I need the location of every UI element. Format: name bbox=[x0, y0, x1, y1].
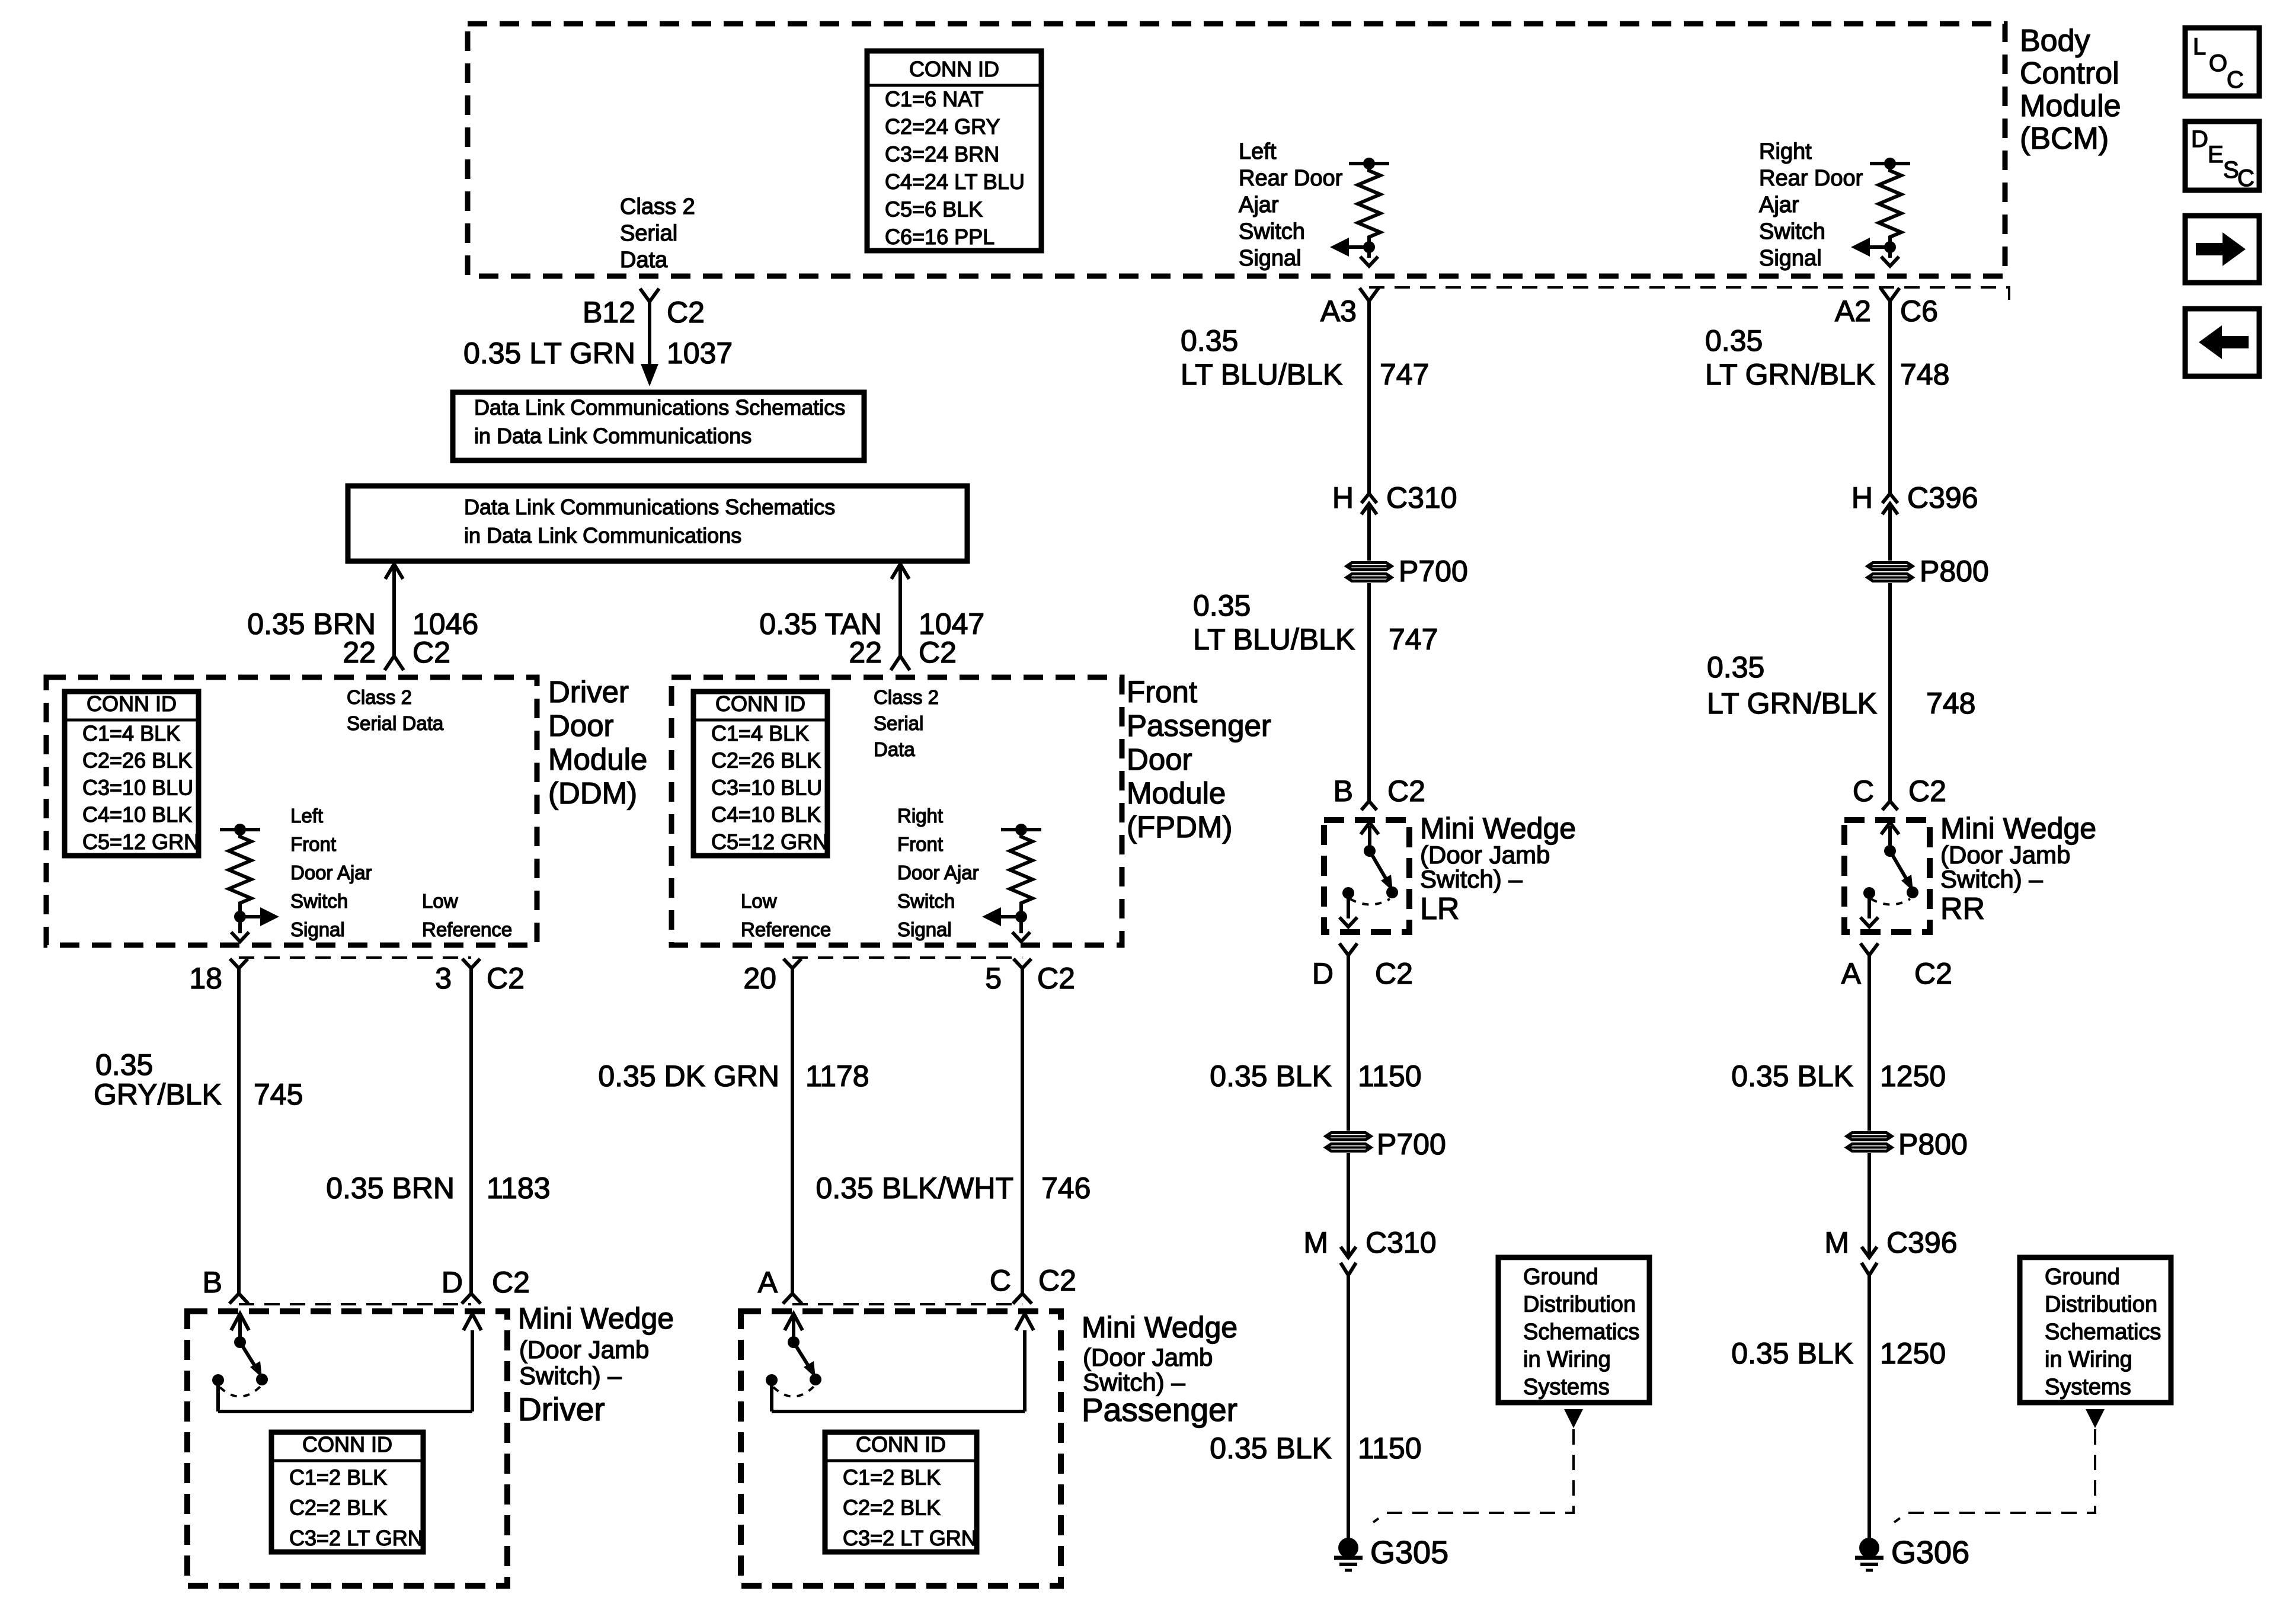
svg-text:C5=12 GRN: C5=12 GRN bbox=[711, 830, 828, 854]
wire: 0.35 BLK 1250 from C396 to ground G306 bbox=[1868, 1275, 1871, 1539]
svg-text:GRY/BLK: GRY/BLK bbox=[94, 1078, 222, 1111]
svg-text:C5=6 BLK: C5=6 BLK bbox=[885, 197, 983, 222]
svg-text:Module: Module bbox=[548, 742, 647, 776]
svg-text:O: O bbox=[2209, 50, 2227, 76]
svg-text:Left: Left bbox=[290, 805, 323, 827]
pass-through grommet P700 (lower) bbox=[1326, 1133, 1371, 1140]
svg-text:C2: C2 bbox=[1037, 962, 1075, 995]
dashed reference path to G306 bbox=[1894, 1429, 2095, 1522]
wire: 0.35 BRN 1046 from DDM 22 C2 up to Data Link box bbox=[385, 564, 403, 579]
svg-text:M: M bbox=[1824, 1226, 1849, 1259]
svg-text:in Data Link Communications: in Data Link Communications bbox=[464, 523, 741, 548]
svg-text:Passenger: Passenger bbox=[1127, 709, 1271, 742]
svg-text:C2: C2 bbox=[492, 1266, 530, 1299]
connector pin 5 C2 on FPDM (female Y) bbox=[1013, 959, 1031, 968]
svg-text:(FPDM): (FPDM) bbox=[1127, 810, 1232, 844]
svg-text:Door Ajar: Door Ajar bbox=[290, 862, 372, 884]
svg-text:C3=24 BRN: C3=24 BRN bbox=[885, 142, 999, 167]
svg-text:0.35: 0.35 bbox=[95, 1048, 153, 1081]
svg-text:0.35 BRN: 0.35 BRN bbox=[326, 1172, 455, 1205]
svg-text:D: D bbox=[442, 1266, 463, 1299]
svg-text:CONN ID: CONN ID bbox=[87, 692, 177, 716]
svg-text:(BCM): (BCM) bbox=[2020, 121, 2109, 156]
svg-text:C6=16 PPL: C6=16 PPL bbox=[885, 225, 994, 249]
svg-text:745: 745 bbox=[254, 1078, 303, 1111]
connector pin B12 C2 on BCM (female Y) bbox=[640, 289, 659, 302]
svg-text:C2: C2 bbox=[667, 296, 705, 329]
svg-text:Switch: Switch bbox=[290, 890, 348, 912]
connector pin A3 on BCM (female Y) bbox=[1360, 288, 1379, 301]
svg-text:1178: 1178 bbox=[805, 1060, 869, 1093]
svg-text:P800: P800 bbox=[1898, 1128, 1968, 1161]
wire: 0.35 LT BLU/BLK 747 from BCM A3 to C310 bbox=[1367, 301, 1371, 493]
connector pin 18 on DDM (female Y) bbox=[230, 959, 248, 968]
wire: 0.35 BLK 1150 from LR wedge D to P700 bbox=[1347, 955, 1350, 1131]
svg-text:3: 3 bbox=[435, 962, 452, 995]
table: passenger wedge CONN ID bbox=[825, 1432, 977, 1552]
ground symbol G306 bbox=[1859, 1538, 1879, 1558]
switch: RR door jamb switch bbox=[1881, 822, 1899, 834]
svg-text:Front: Front bbox=[290, 833, 336, 855]
svg-text:C4=24 LT BLU: C4=24 LT BLU bbox=[885, 169, 1025, 194]
svg-text:in Data Link Communications: in Data Link Communications bbox=[474, 424, 752, 448]
svg-text:Left: Left bbox=[1239, 139, 1277, 164]
svg-text:747: 747 bbox=[1380, 358, 1429, 391]
svg-text:Signal: Signal bbox=[897, 918, 952, 940]
svg-text:0.35: 0.35 bbox=[1705, 324, 1763, 357]
switch: passenger door jamb switch bbox=[785, 1314, 802, 1330]
svg-text:C2=26 BLK: C2=26 BLK bbox=[82, 748, 192, 773]
svg-text:C2: C2 bbox=[1908, 774, 1946, 808]
arrow from ground dist box (left) bbox=[1564, 1409, 1583, 1428]
connector interface line above driver wedge (thin dashed) bbox=[239, 1303, 471, 1305]
svg-text:C2=24 GRY: C2=24 GRY bbox=[885, 114, 1000, 139]
svg-text:CONN ID: CONN ID bbox=[909, 57, 999, 81]
svg-text:C3=2 LT GRN: C3=2 LT GRN bbox=[289, 1526, 423, 1550]
svg-text:747: 747 bbox=[1389, 623, 1438, 656]
svg-text:Distribution: Distribution bbox=[1523, 1292, 1636, 1317]
svg-text:1150: 1150 bbox=[1358, 1432, 1422, 1465]
svg-text:C1=2 BLK: C1=2 BLK bbox=[289, 1465, 387, 1489]
svg-text:G305: G305 bbox=[1370, 1535, 1448, 1570]
pass-through grommet P800 (lower) bbox=[1847, 1133, 1892, 1140]
wire: 0.35 BLK 1250 from RR wedge A to P800 bbox=[1868, 955, 1871, 1131]
svg-text:C: C bbox=[990, 1264, 1011, 1297]
wire: 0.35 TAN 1047 from FPDM 22 C2 up to Data Link box bbox=[891, 564, 909, 579]
svg-text:B12: B12 bbox=[583, 296, 635, 329]
svg-text:Front: Front bbox=[1127, 675, 1197, 709]
svg-text:Mini Wedge: Mini Wedge bbox=[1420, 812, 1576, 845]
svg-text:0.35 BLK: 0.35 BLK bbox=[1731, 1060, 1853, 1093]
wire: 0.35 LT GRN 1037 from BCM B12 to Data Link box bbox=[648, 302, 651, 365]
svg-text:C6: C6 bbox=[1900, 295, 1938, 328]
svg-text:Ajar: Ajar bbox=[1759, 193, 1799, 217]
svg-text:Low: Low bbox=[741, 890, 777, 912]
wire: C396 to P800 bbox=[1888, 504, 1892, 561]
svg-text:Reference: Reference bbox=[741, 918, 831, 940]
svg-text:C5=12 GRN: C5=12 GRN bbox=[82, 830, 199, 854]
module box: Driver Door Module (DDM), dashed bbox=[46, 677, 537, 945]
svg-text:Driver: Driver bbox=[518, 1391, 605, 1427]
svg-text:0.35 DK GRN: 0.35 DK GRN bbox=[598, 1060, 779, 1093]
svg-text:D: D bbox=[1312, 957, 1334, 990]
svg-text:L: L bbox=[2193, 34, 2206, 60]
svg-text:1250: 1250 bbox=[1880, 1060, 1946, 1093]
connector pin 22 C2 on FPDM (inverted Y) bbox=[891, 656, 910, 670]
svg-text:Right: Right bbox=[897, 805, 943, 827]
svg-text:Body: Body bbox=[2020, 24, 2090, 58]
svg-text:Module: Module bbox=[1127, 776, 1226, 810]
svg-text:1183: 1183 bbox=[487, 1172, 551, 1205]
ground symbol G305 bbox=[1338, 1538, 1358, 1558]
svg-text:0.35: 0.35 bbox=[1707, 651, 1764, 684]
svg-text:C2=2 BLK: C2=2 BLK bbox=[843, 1496, 941, 1520]
svg-text:Passenger: Passenger bbox=[1082, 1391, 1237, 1428]
svg-text:A2: A2 bbox=[1835, 295, 1871, 328]
svg-text:C1=6 NAT: C1=6 NAT bbox=[885, 87, 983, 111]
svg-text:Ajar: Ajar bbox=[1239, 193, 1279, 217]
svg-text:Switch) –: Switch) – bbox=[1420, 865, 1523, 893]
svg-text:C3=10 BLU: C3=10 BLU bbox=[711, 775, 822, 799]
table: FPDM CONN ID bbox=[693, 692, 827, 856]
svg-text:C2=26 BLK: C2=26 BLK bbox=[711, 748, 821, 773]
svg-text:C: C bbox=[1853, 774, 1874, 808]
svg-text:B: B bbox=[203, 1266, 222, 1299]
svg-text:C: C bbox=[2227, 67, 2244, 93]
switch box: Mini Wedge (Door Jamb Switch) Driver, dashed bbox=[187, 1311, 507, 1586]
connector pin A2 C6 on BCM (female Y) bbox=[1881, 288, 1900, 301]
wire: 0.35 LT GRN/BLK 748 from P800 to RR wedge C C2 bbox=[1888, 583, 1892, 801]
svg-text:C396: C396 bbox=[1886, 1226, 1958, 1259]
svg-text:Door: Door bbox=[1127, 742, 1192, 776]
svg-text:Systems: Systems bbox=[1523, 1375, 1610, 1400]
svg-text:0.35 BLK/WHT: 0.35 BLK/WHT bbox=[816, 1172, 1013, 1205]
svg-text:C4=10 BLK: C4=10 BLK bbox=[82, 802, 192, 827]
svg-text:Signal: Signal bbox=[1239, 246, 1302, 271]
connector pin C C2 at RR wedge (female Y) bbox=[1882, 801, 1898, 810]
wire: 0.35 GRY/BLK 745 from DDM 18 to driver wedge B bbox=[237, 968, 241, 1294]
legend box left-arrow bbox=[2185, 309, 2259, 376]
svg-text:H: H bbox=[1851, 481, 1873, 514]
connector C396 pin H (inline) bbox=[1882, 494, 1898, 503]
svg-text:A: A bbox=[758, 1266, 778, 1299]
svg-text:Data: Data bbox=[874, 738, 915, 760]
svg-text:5: 5 bbox=[985, 962, 1002, 995]
svg-text:C3=10 BLU: C3=10 BLU bbox=[82, 775, 193, 799]
svg-text:LT BLU/BLK: LT BLU/BLK bbox=[1193, 623, 1355, 656]
svg-text:Schematics: Schematics bbox=[1523, 1320, 1639, 1345]
svg-text:Serial Data: Serial Data bbox=[347, 712, 444, 734]
switch: LR door jamb switch bbox=[1361, 822, 1379, 834]
svg-text:Data Link Communications Schem: Data Link Communications Schematics bbox=[474, 395, 845, 420]
wire: 0.35 LT GRN/BLK 748 from BCM A2 to C396 bbox=[1888, 301, 1892, 493]
wire: 0.35 BLK 1150 from C310 to ground G305 bbox=[1347, 1275, 1350, 1539]
svg-text:Class 2: Class 2 bbox=[874, 686, 939, 708]
svg-text:0.35 LT GRN: 0.35 LT GRN bbox=[463, 337, 635, 370]
svg-text:P700: P700 bbox=[1399, 555, 1468, 588]
svg-text:Driver: Driver bbox=[548, 675, 629, 709]
svg-text:(DDM): (DDM) bbox=[548, 776, 637, 810]
reference box: Ground Distribution Schematics in Wiring Systems (left) bbox=[1498, 1257, 1649, 1403]
svg-text:A: A bbox=[1841, 957, 1862, 990]
switch box: Mini Wedge (Door Jamb Switch) RR, dashed bbox=[1844, 820, 1930, 932]
svg-text:D: D bbox=[2191, 126, 2208, 152]
wire: 0.35 BRN 1183 from DDM 3 to driver wedge D bbox=[469, 968, 473, 1294]
svg-text:Serial: Serial bbox=[874, 712, 923, 734]
svg-text:Class 2: Class 2 bbox=[620, 194, 695, 219]
svg-text:Right: Right bbox=[1759, 139, 1812, 164]
svg-text:LT BLU/BLK: LT BLU/BLK bbox=[1181, 358, 1342, 391]
connector pins B / D C2 at driver wedge (inverted Y) bbox=[229, 1294, 248, 1304]
svg-text:C1=2 BLK: C1=2 BLK bbox=[843, 1465, 941, 1489]
pass-through grommet P800 (upper) bbox=[1868, 563, 1913, 570]
svg-text:P700: P700 bbox=[1377, 1128, 1446, 1161]
svg-text:H: H bbox=[1332, 481, 1354, 514]
svg-text:C2: C2 bbox=[412, 636, 450, 669]
svg-text:Control: Control bbox=[2020, 56, 2119, 91]
svg-text:M: M bbox=[1303, 1226, 1328, 1259]
svg-text:0.35 BLK: 0.35 BLK bbox=[1731, 1337, 1853, 1370]
svg-text:B: B bbox=[1334, 774, 1353, 808]
svg-text:C2: C2 bbox=[1375, 957, 1413, 990]
legend box LOC bbox=[2185, 28, 2259, 96]
connector pin A C2 below RR wedge (female Y) bbox=[1860, 943, 1878, 955]
resistor: Left Rear Door Ajar Switch pull-up in BCM bbox=[1349, 162, 1389, 165]
svg-text:C2: C2 bbox=[487, 962, 525, 995]
module box: Front Passenger Door Module (FPDM), dashed bbox=[671, 677, 1122, 945]
svg-text:C2: C2 bbox=[919, 636, 957, 669]
svg-text:1250: 1250 bbox=[1880, 1337, 1946, 1370]
svg-text:Front: Front bbox=[897, 833, 943, 855]
table: driver wedge CONN ID bbox=[271, 1432, 423, 1552]
svg-text:A3: A3 bbox=[1320, 295, 1357, 328]
svg-text:Rear Door: Rear Door bbox=[1759, 166, 1863, 191]
svg-text:CONN ID: CONN ID bbox=[715, 692, 805, 716]
wire: P700 to C310 M bbox=[1347, 1153, 1350, 1257]
svg-text:22: 22 bbox=[849, 636, 882, 669]
svg-text:0.35 BLK: 0.35 BLK bbox=[1210, 1432, 1332, 1465]
switch: driver door jamb switch bbox=[231, 1314, 249, 1330]
resistor: Right Rear Door Ajar Switch pull-up in BCM bbox=[1870, 162, 1910, 165]
svg-text:C2=2 BLK: C2=2 BLK bbox=[289, 1496, 387, 1520]
svg-text:0.35: 0.35 bbox=[1193, 589, 1251, 622]
svg-text:LT GRN/BLK: LT GRN/BLK bbox=[1707, 687, 1877, 720]
svg-text:S: S bbox=[2223, 157, 2239, 183]
svg-text:LR: LR bbox=[1420, 892, 1459, 926]
resistor: Right Front Door Ajar Switch pull-up in FPDM bbox=[1001, 828, 1041, 831]
svg-text:C4=10 BLK: C4=10 BLK bbox=[711, 802, 821, 827]
connector C396 pin M (inline) bbox=[1862, 1247, 1877, 1257]
resistor: Left Front Door Ajar Switch pull-up in DDM bbox=[220, 828, 260, 831]
svg-text:22: 22 bbox=[343, 636, 376, 669]
pass-through grommet P700 (upper) bbox=[1347, 563, 1392, 570]
wire: 0.35 DK GRN 1178 from FPDM 20 to passenger wedge A bbox=[791, 968, 794, 1294]
svg-text:C1=4 BLK: C1=4 BLK bbox=[711, 721, 809, 745]
svg-text:C3=2 LT GRN: C3=2 LT GRN bbox=[843, 1526, 977, 1550]
svg-text:Signal: Signal bbox=[1759, 246, 1822, 271]
arrow from ground dist box (right) bbox=[2086, 1409, 2105, 1428]
switch box: Mini Wedge (Door Jamb Switch) Passenger, dashed bbox=[741, 1311, 1061, 1586]
svg-text:Door: Door bbox=[548, 709, 614, 742]
svg-text:Signal: Signal bbox=[290, 918, 345, 940]
svg-text:C2: C2 bbox=[1038, 1264, 1076, 1297]
svg-text:Mini Wedge: Mini Wedge bbox=[1082, 1311, 1237, 1344]
connector C310 pin H (inline) bbox=[1361, 494, 1377, 503]
svg-text:C2: C2 bbox=[1914, 957, 1952, 990]
wire: 0.35 LT BLU/BLK 747 from P700 to LR wedge B C2 bbox=[1367, 583, 1371, 801]
svg-text:20: 20 bbox=[743, 962, 776, 995]
svg-text:LT GRN/BLK: LT GRN/BLK bbox=[1705, 358, 1875, 391]
svg-text:Module: Module bbox=[2020, 89, 2121, 123]
svg-text:CONN ID: CONN ID bbox=[302, 1432, 392, 1457]
svg-text:Data Link Communications Schem: Data Link Communications Schematics bbox=[464, 495, 835, 519]
switch box: Mini Wedge (Door Jamb Switch) LR, dashed bbox=[1324, 820, 1409, 932]
svg-text:C310: C310 bbox=[1386, 481, 1457, 514]
svg-text:Door Ajar: Door Ajar bbox=[897, 862, 979, 884]
svg-text:(Door Jamb: (Door Jamb bbox=[1940, 841, 2070, 869]
svg-text:C: C bbox=[2237, 165, 2255, 191]
svg-text:C2: C2 bbox=[1387, 774, 1425, 808]
svg-text:(Door Jamb: (Door Jamb bbox=[1083, 1343, 1213, 1371]
svg-text:748: 748 bbox=[1926, 687, 1975, 720]
wire: C310 to P700 bbox=[1367, 504, 1371, 561]
connector pin 22 C2 on DDM (inverted Y) bbox=[385, 656, 404, 670]
svg-text:Data: Data bbox=[620, 248, 668, 273]
svg-text:C310: C310 bbox=[1366, 1226, 1437, 1259]
svg-text:Low: Low bbox=[422, 890, 458, 912]
connector C310 pin M (inline) bbox=[1341, 1247, 1356, 1257]
connector interface line under FPDM (thin dashed) bbox=[792, 956, 1022, 959]
connector interface line under BCM (thin dashed) bbox=[1369, 287, 2009, 303]
svg-text:Switch: Switch bbox=[897, 890, 955, 912]
svg-text:CONN ID: CONN ID bbox=[856, 1432, 946, 1457]
svg-text:Class 2: Class 2 bbox=[347, 686, 412, 708]
svg-text:G306: G306 bbox=[1891, 1535, 1969, 1570]
svg-text:Switch) –: Switch) – bbox=[1940, 865, 2043, 893]
svg-text:Serial: Serial bbox=[620, 221, 677, 246]
legend box right-arrow bbox=[2185, 216, 2259, 283]
connector interface line under DDM (thin dashed) bbox=[239, 956, 471, 959]
svg-text:E: E bbox=[2208, 142, 2224, 168]
module box: Body Control Module (BCM), dashed bbox=[468, 24, 2005, 276]
svg-text:RR: RR bbox=[1940, 892, 1985, 926]
svg-text:Systems: Systems bbox=[2045, 1375, 2131, 1400]
wire: P800 to C396 M bbox=[1868, 1153, 1871, 1257]
svg-text:Mini Wedge: Mini Wedge bbox=[518, 1302, 674, 1335]
svg-text:in Wiring: in Wiring bbox=[2045, 1347, 2132, 1372]
svg-text:(Door Jamb: (Door Jamb bbox=[1420, 841, 1550, 869]
svg-text:18: 18 bbox=[189, 962, 222, 995]
connector pins A / C C2 at passenger wedge (inverted Y) bbox=[783, 1294, 802, 1304]
wire: 0.35 BLK/WHT 746 from FPDM 5 to passenger wedge C bbox=[1021, 968, 1024, 1294]
svg-text:in Wiring: in Wiring bbox=[1523, 1347, 1611, 1372]
svg-text:746: 746 bbox=[1041, 1172, 1091, 1205]
svg-text:Switch: Switch bbox=[1239, 219, 1305, 244]
svg-text:0.35 BLK: 0.35 BLK bbox=[1210, 1060, 1332, 1093]
svg-text:Mini Wedge: Mini Wedge bbox=[1940, 812, 2096, 845]
svg-text:Schematics: Schematics bbox=[2045, 1320, 2161, 1345]
svg-text:C1=4 BLK: C1=4 BLK bbox=[82, 721, 180, 745]
svg-text:Switch) –: Switch) – bbox=[519, 1362, 622, 1390]
svg-text:1150: 1150 bbox=[1358, 1060, 1422, 1093]
connector pin B C2 at LR wedge (female Y) bbox=[1361, 801, 1377, 810]
reference box: Ground Distribution Schematics in Wiring Systems (right) bbox=[2020, 1257, 2171, 1403]
table: BCM CONN ID bbox=[867, 51, 1041, 251]
svg-text:Reference: Reference bbox=[422, 918, 512, 940]
table: DDM CONN ID bbox=[65, 692, 199, 856]
svg-text:1037: 1037 bbox=[667, 337, 733, 370]
svg-text:(Door Jamb: (Door Jamb bbox=[519, 1336, 649, 1363]
reference box: Data Link Communications Schematics (upper) bbox=[453, 392, 864, 460]
svg-text:P800: P800 bbox=[1920, 555, 1989, 588]
svg-text:Ground: Ground bbox=[1523, 1265, 1598, 1289]
svg-text:C396: C396 bbox=[1907, 481, 1978, 514]
svg-text:Switch: Switch bbox=[1759, 219, 1825, 244]
connector pin 3 C2 on DDM (female Y) bbox=[462, 959, 480, 968]
svg-text:Ground: Ground bbox=[2045, 1265, 2120, 1289]
connector pin D C2 below LR wedge (female Y) bbox=[1339, 943, 1357, 955]
dashed reference path to G305 bbox=[1373, 1429, 1574, 1522]
reference box: Data Link Communications Schematics (lower) bbox=[348, 486, 967, 561]
svg-text:0.35: 0.35 bbox=[1181, 324, 1238, 357]
connector interface line above passenger wedge (thin dashed) bbox=[792, 1303, 1022, 1305]
connector pin 20 on FPDM (female Y) bbox=[784, 959, 801, 968]
svg-text:Distribution: Distribution bbox=[2045, 1292, 2157, 1317]
svg-text:Rear Door: Rear Door bbox=[1239, 166, 1343, 191]
svg-text:748: 748 bbox=[1900, 358, 1949, 391]
legend box DESC bbox=[2185, 121, 2259, 190]
